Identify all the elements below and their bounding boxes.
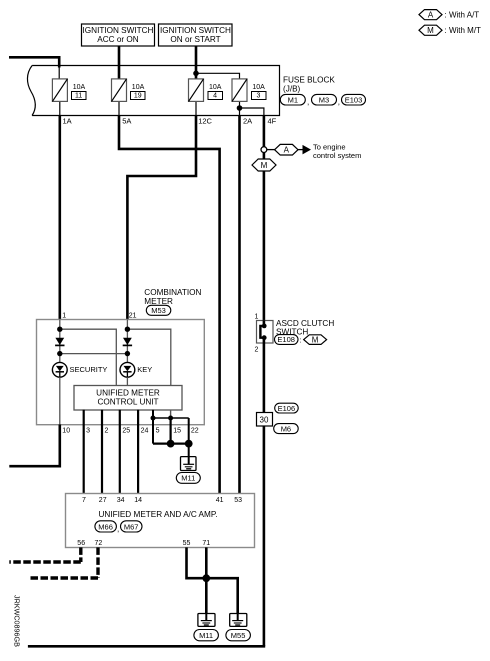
wire pin 5 stub	[152, 410, 154, 444]
svg-text:M11: M11	[199, 631, 213, 640]
internal wire key LED to control unit	[126, 377, 128, 385]
wire fuse 11 to block edge	[59, 102, 61, 115]
svg-text:56: 56	[77, 540, 85, 547]
svg-text:ON or START: ON or START	[170, 35, 220, 44]
LED key indicator	[120, 362, 135, 377]
svg-text:41: 41	[216, 497, 224, 504]
wire pin 24 to amp pin 14	[137, 410, 139, 494]
node junction circle engine branch	[261, 147, 267, 153]
connector M1	[280, 94, 305, 105]
node dot pin1 top	[57, 327, 62, 332]
svg-text:1: 1	[62, 312, 66, 319]
svg-text:10A: 10A	[73, 84, 86, 91]
svg-text:KEY: KEY	[137, 365, 152, 374]
ignition switch ON or START box	[159, 24, 233, 46]
svg-text:M55: M55	[231, 631, 246, 640]
wire pin 2 to amp pin 27	[101, 410, 103, 494]
wire 5A to unified meter amp pin 41	[119, 115, 220, 493]
hexagon M with M/T ASCD	[304, 335, 327, 345]
ground symbol M55	[230, 614, 247, 627]
label ASCD CLUTCH SWITCH	[276, 319, 334, 337]
svg-text:34: 34	[117, 497, 125, 504]
wire fuse 4 to block edge	[195, 102, 197, 115]
wire ASCD pin 2 down	[263, 343, 266, 646]
svg-text:M3: M3	[319, 95, 329, 104]
node junction fuse 3 output	[237, 105, 243, 111]
svg-text:5: 5	[156, 428, 160, 435]
legend hexagon A : With A/T	[419, 10, 479, 20]
svg-text:,: ,	[307, 98, 309, 107]
svg-text:4F: 4F	[268, 116, 277, 125]
value box 19	[131, 92, 146, 100]
connector M55 ground	[226, 630, 251, 641]
combination meter box M53	[37, 320, 205, 425]
connector M66	[95, 521, 117, 532]
legend hexagon M : With M/T	[419, 25, 481, 35]
wire pin 22 stub	[188, 418, 190, 457]
node junction fuse 4 feed	[193, 71, 199, 77]
svg-text:12C: 12C	[198, 116, 212, 125]
svg-text:M11: M11	[181, 474, 195, 483]
svg-text:control system: control system	[313, 151, 361, 160]
svg-text:UNIFIED METER AND A/C AMP.: UNIFIED METER AND A/C AMP.	[98, 510, 217, 519]
wire 2A to unified meter amp pin 53	[238, 115, 241, 493]
svg-text:M67: M67	[124, 522, 139, 531]
connector M11 meter ground	[176, 473, 200, 484]
wire to hexagon A	[267, 149, 275, 151]
value box 3	[252, 92, 267, 100]
wire pin 55 to junction	[187, 547, 207, 578]
connector E106	[275, 403, 299, 413]
svg-text:72: 72	[95, 540, 103, 547]
node dot lower jumper 22	[185, 440, 193, 448]
svg-text:ACC or ON: ACC or ON	[97, 35, 138, 44]
svg-text:1A: 1A	[63, 116, 72, 125]
ground symbol M11	[198, 614, 215, 627]
node dot pin5 jumper	[151, 416, 156, 421]
svg-text:24: 24	[141, 428, 149, 435]
wire branch to fuse 3	[196, 73, 240, 78]
wire pin 72 dashed option	[29, 547, 98, 578]
wire jumper pins 5 15 22 upper	[153, 417, 189, 419]
svg-text:CONTROL UNIT: CONTROL UNIT	[97, 398, 158, 407]
svg-text:,: ,	[338, 98, 340, 107]
svg-text:E106: E106	[278, 404, 296, 413]
hexagon M with M/T on wire	[252, 159, 276, 171]
svg-text:2A: 2A	[243, 116, 252, 125]
node junction grounds	[202, 574, 210, 582]
connector M6	[274, 424, 299, 434]
svg-text:3: 3	[86, 428, 90, 435]
svg-text:2: 2	[105, 428, 109, 435]
arrow to engine control system	[298, 145, 311, 155]
svg-text:A: A	[428, 11, 434, 20]
svg-text:M53: M53	[151, 306, 166, 315]
svg-text:27: 27	[99, 497, 107, 504]
svg-text:IGNITION SWITCH: IGNITION SWITCH	[83, 26, 154, 35]
wire 12C to combination meter pin 21	[127, 115, 196, 320]
connector E108	[275, 335, 302, 345]
wire pin 10 to left	[9, 425, 60, 467]
connector M11 ground	[194, 630, 219, 641]
svg-text:2: 2	[255, 347, 259, 354]
svg-text:10: 10	[62, 428, 70, 435]
wire battery feed to fuse 11	[9, 57, 59, 67]
svg-text:M: M	[261, 161, 268, 170]
svg-text:25: 25	[122, 428, 130, 435]
svg-text:SECURITY: SECURITY	[70, 365, 108, 374]
svg-text:M66: M66	[98, 522, 113, 531]
wire hexagon M to ASCD clutch switch pin 1	[263, 171, 266, 326]
svg-text:7: 7	[82, 497, 86, 504]
unified meter and A/C amp box	[66, 494, 255, 548]
svg-text:IGNITION SWITCH: IGNITION SWITCH	[160, 26, 231, 35]
fuse 10A 11	[52, 79, 67, 102]
svg-text:10A: 10A	[252, 84, 265, 91]
hexagon A with A/T	[275, 144, 298, 155]
connector E103	[338, 94, 366, 106]
svg-text:11: 11	[75, 93, 82, 100]
svg-text:55: 55	[183, 540, 191, 547]
wire from ignition switch ON or START to fuse 4	[195, 46, 198, 78]
value box 4	[208, 92, 223, 100]
node dot pin21 top	[125, 327, 130, 332]
svg-text:JRKWC0896GB: JRKWC0896GB	[13, 595, 22, 647]
svg-text:5A: 5A	[122, 116, 131, 125]
internal wire pin 1 branch	[60, 320, 117, 386]
svg-text:71: 71	[202, 540, 210, 547]
svg-text:: With M/T: : With M/T	[445, 26, 482, 35]
diode D2 key	[123, 338, 132, 346]
internal wire linking cathodes	[60, 353, 128, 355]
fuse block (J/B) outline	[27, 66, 279, 116]
wire pin 25 to amp pin 34	[119, 410, 121, 494]
wire jumper lower to ground	[153, 443, 189, 445]
svg-text:30: 30	[260, 416, 269, 425]
svg-text:10A: 10A	[209, 84, 222, 91]
svg-text:10A: 10A	[132, 84, 145, 91]
wire junction circle to hexagon M	[263, 153, 266, 160]
node dot key cathode	[125, 351, 130, 356]
node dot lower jumper 15	[167, 440, 175, 448]
svg-text:15: 15	[173, 428, 181, 435]
node dot pin15 jumper	[168, 416, 173, 421]
internal wire security LED to pin 10	[59, 377, 61, 424]
wire branch to ground M55	[206, 578, 237, 613]
svg-text:METER: METER	[144, 297, 173, 306]
wire from ignition switch ACC or ON to fuse 19	[118, 46, 121, 78]
svg-text:UNIFIED METER: UNIFIED METER	[96, 389, 160, 398]
svg-text:(J/B): (J/B)	[283, 85, 301, 94]
internal wire pin 21 branch	[127, 320, 170, 386]
wire 4F down to junction circle	[263, 115, 266, 147]
ground symbol meter M11	[181, 457, 197, 471]
fuse 10A 19	[112, 79, 127, 102]
svg-text:53: 53	[234, 497, 242, 504]
wire 1A to combination meter pin 1	[58, 115, 61, 320]
node dot security cathode	[57, 351, 62, 356]
svg-text:M1: M1	[288, 95, 298, 104]
wire fuse 3 to block edge and 4F branch	[240, 102, 264, 115]
svg-text:E103: E103	[345, 95, 363, 104]
connector box 30	[257, 413, 273, 427]
svg-text:M: M	[427, 26, 434, 35]
wire pin 3 to amp pin 7	[83, 410, 85, 494]
svg-text:A: A	[284, 146, 290, 155]
unified meter control unit box	[74, 386, 182, 411]
fuse 10A 3	[232, 79, 247, 102]
wire pin 15 stub	[170, 410, 172, 418]
svg-text:22: 22	[191, 428, 199, 435]
diode D1 security	[55, 338, 64, 346]
svg-text::: :	[300, 335, 302, 344]
label COMBINATION METER	[144, 288, 201, 306]
svg-text:M: M	[312, 336, 319, 345]
label To engine control system	[313, 142, 361, 160]
svg-text:19: 19	[134, 93, 142, 100]
svg-text:,: ,	[117, 525, 119, 534]
wire pin 71 to ground M11	[205, 547, 208, 613]
fuse 10A 4	[189, 79, 204, 102]
svg-text:1: 1	[255, 314, 259, 321]
svg-text:21: 21	[129, 312, 137, 319]
connector M67	[117, 521, 142, 534]
svg-text:E108: E108	[277, 335, 295, 344]
fuse block label FUSE BLOCK (J/B)	[283, 76, 335, 94]
svg-text:FUSE BLOCK: FUSE BLOCK	[283, 76, 335, 85]
wire bottom run to left	[28, 645, 265, 648]
svg-text:COMBINATION: COMBINATION	[144, 288, 201, 297]
wire pin 56 dashed option	[9, 547, 81, 562]
svg-text:: With A/T: : With A/T	[445, 10, 480, 19]
svg-text:4: 4	[213, 93, 217, 100]
svg-text:M6: M6	[281, 424, 291, 433]
wire fuse 19 to block edge	[118, 102, 120, 115]
ASCD clutch switch	[257, 320, 274, 343]
svg-text:3: 3	[257, 93, 261, 100]
svg-text:14: 14	[134, 497, 142, 504]
LED security indicator	[52, 362, 67, 377]
connector M3	[307, 94, 337, 106]
connector M53	[146, 305, 171, 315]
ignition switch ACC or ON box	[82, 24, 155, 46]
value box 11	[72, 92, 87, 100]
